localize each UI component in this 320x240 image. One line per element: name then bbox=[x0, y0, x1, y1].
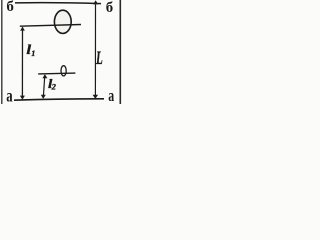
svg-text:б: б bbox=[106, 0, 113, 16]
svg-text:а: а bbox=[6, 87, 13, 104]
generator G2 (small ellipse) bbox=[61, 66, 66, 76]
wire: upper branch bbox=[20, 25, 81, 27]
left page border bbox=[1, 0, 3, 104]
svg-text:б: б bbox=[6, 0, 13, 15]
label l1 bbox=[26, 43, 35, 58]
right page border bbox=[119, 0, 121, 104]
dimension arrow l1 bbox=[20, 27, 25, 100]
svg-text:а: а bbox=[108, 87, 114, 104]
svg-text:L: L bbox=[95, 48, 103, 69]
label l2 bbox=[48, 77, 57, 91]
wire: bottom rail a-a bbox=[14, 99, 104, 100]
wire: lower branch bbox=[38, 72, 75, 75]
svg-text:2: 2 bbox=[51, 82, 57, 92]
dimension arrow l2 bbox=[41, 74, 48, 99]
generator G1 body tint bbox=[54, 10, 71, 33]
paper background bbox=[0, 0, 124, 104]
wire: top rail б-б bbox=[15, 2, 101, 5]
dimension arrow L bbox=[93, 0, 99, 99]
svg-text:1: 1 bbox=[31, 49, 35, 58]
generator G1 (large ellipse) bbox=[54, 10, 71, 33]
